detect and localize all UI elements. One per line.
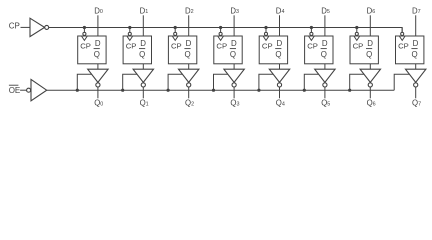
svg-text:Q: Q [366,50,372,59]
svg-text:Q6: Q6 [367,99,376,108]
wire D5 input [324,15,326,36]
node clock junction 6 [355,26,358,29]
svg-text:Q5: Q5 [321,99,330,108]
svg-text:CP: CP [126,42,137,51]
wire D2 input [188,15,190,36]
wire Q5 output [324,87,326,98]
svg-text:Q: Q [94,50,100,59]
svg-text:Q: Q [275,50,281,59]
wire Q5 internal stub [324,64,326,69]
node enable junction 0 [76,89,79,92]
tri-state buffer B2 [179,69,199,87]
wire Q0 output [97,87,99,98]
svg-text:OE: OE [9,86,21,95]
wire Q1 output [142,87,144,98]
svg-text:CP: CP [9,21,20,30]
tri-state buffer B4 [269,69,289,87]
svg-text:D3: D3 [230,7,239,16]
svg-text:CP: CP [353,42,364,51]
svg-text:D: D [367,39,373,48]
flip-flop FF6 [350,32,378,63]
flip-flop FF5 [305,32,333,63]
svg-text:CP: CP [262,42,273,51]
wire clock stub 7 [401,28,403,33]
wire enable 1 [123,74,137,90]
node clock junction 1 [128,26,131,29]
svg-text:Q1: Q1 [140,99,149,108]
wire D1 input [142,15,144,36]
node clock junction 3 [219,26,222,29]
wire Q4 output [279,87,281,98]
tri-state buffer B3 [224,69,244,87]
wire D4 input [279,15,281,36]
wire clock stub 3 [220,28,222,33]
svg-text:D6: D6 [367,7,376,16]
node enable junction 2 [167,89,170,92]
svg-text:D: D [413,39,419,48]
wire Q6 internal stub [369,64,371,69]
wire D0 input [97,15,99,36]
wire Q7 output [415,87,417,98]
wire enable 0 [77,74,91,90]
svg-text:D1: D1 [140,7,149,16]
wire enable 3 [214,74,228,90]
svg-text:D: D [276,39,282,48]
svg-text:Q4: Q4 [276,99,285,108]
tri-state buffer B1 [133,69,153,87]
wire Q7 internal stub [415,64,417,69]
wire Q6 output [369,87,371,98]
node enable junction 6 [348,89,351,92]
svg-text:Q2: Q2 [185,99,194,108]
wire clock stub 0 [83,28,85,33]
wire clock stub 6 [356,28,358,33]
svg-text:Q: Q [230,50,236,59]
flip-flop FF1 [123,32,151,63]
wire Q2 output [188,87,190,98]
wire clock stub 1 [129,28,131,33]
svg-text:CP: CP [216,42,227,51]
wire Q1 internal stub [142,64,144,69]
svg-text:Q: Q [412,50,418,59]
svg-text:D5: D5 [321,7,330,16]
flip-flop FF7 [396,32,424,63]
wire clock stub 4 [265,28,267,33]
svg-text:Q: Q [139,50,145,59]
svg-text:D0: D0 [94,7,103,16]
node clock junction 5 [310,26,313,29]
wire CP input [21,26,31,28]
node clock junction 4 [264,26,267,29]
node enable junction 5 [303,89,306,92]
svg-text:Q3: Q3 [230,99,239,108]
wire enable 4 [259,74,273,90]
wire Q0 internal stub [97,64,99,69]
svg-text:CP: CP [80,42,91,51]
svg-text:Q7: Q7 [412,99,421,108]
tri-state buffer B5 [315,69,335,87]
flip-flop FF2 [168,32,196,63]
wire enable 2 [168,74,182,90]
node enable junction 4 [257,89,260,92]
wire Q2 internal stub [188,64,190,69]
node enable junction 1 [121,89,124,92]
wire enable 6 [350,74,364,90]
wire Q4 internal stub [279,64,281,69]
wire D6 input [369,15,371,36]
svg-text:Q: Q [321,50,327,59]
wire Q3 output [233,87,235,98]
node enable junction 3 [212,89,215,92]
svg-text:CP: CP [398,42,409,51]
wire clock stub 2 [174,28,176,33]
svg-text:D: D [231,39,237,48]
wire enable 5 [304,74,318,90]
svg-text:D7: D7 [412,7,421,16]
wire D7 input [415,15,417,36]
svg-text:D: D [95,39,101,48]
flip-flop FF4 [259,32,287,63]
buffer U2 (OE buffer, inverting input) [27,79,47,100]
flip-flop FF3 [214,32,242,63]
svg-text:D: D [140,39,146,48]
node clock junction 0 [83,26,86,29]
svg-text:D: D [322,39,328,48]
wire Q3 internal stub [233,64,235,69]
flip-flop FF0 [78,32,106,63]
tri-state buffer B0 [88,69,108,87]
svg-text:CP: CP [307,42,318,51]
svg-text:Q: Q [185,50,191,59]
tri-state buffer B6 [360,69,380,87]
tri-state buffer B7 [406,69,426,87]
node clock junction 2 [174,26,177,29]
wire OE input [20,89,26,91]
wire clock rail [49,28,402,33]
wire OE rail [47,89,395,91]
svg-text:D4: D4 [276,7,285,16]
svg-text:D: D [186,39,192,48]
svg-text:Q0: Q0 [94,99,103,108]
svg-text:D2: D2 [185,7,194,16]
svg-text:CP: CP [171,42,182,51]
inverter U1 (CP buffer) [30,18,49,36]
wire clock stub 5 [310,28,312,33]
wire D3 input [233,15,235,36]
wire enable 7 [394,74,409,90]
